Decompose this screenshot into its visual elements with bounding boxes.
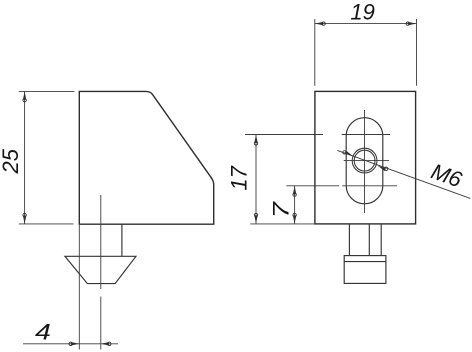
dimension 25 arrow down [23, 213, 26, 223]
dimension 4 arrow left-pointing [101, 342, 111, 345]
dimension 19 extension line right [416, 19, 418, 86]
front view T-nut rectangle [344, 256, 386, 284]
dimension 17 line [255, 135, 257, 224]
dimension 25 extension line top [19, 90, 75, 92]
dimension 25 line [24, 91, 26, 224]
M6 leader loop lower [385, 167, 388, 170]
svg-text:7: 7 [270, 200, 294, 218]
right view vertical center line [364, 110, 366, 213]
dimension 7 arrow up [293, 186, 296, 196]
dimension 17 extension line [245, 134, 323, 136]
dimension 25 arrow up [23, 92, 26, 102]
dimension 19 text [350, 0, 374, 25]
dimension 25 extension line bottom [19, 223, 74, 225]
dimension 7 line [294, 186, 296, 224]
M6 text [428, 159, 466, 193]
dimension 25 text [0, 148, 23, 174]
M6 leader arrow upper-left [345, 151, 353, 157]
dimension 19 arrow right [406, 22, 416, 25]
right view rectangle outline [315, 91, 416, 224]
lower arc center mark [342, 185, 397, 187]
svg-text:25: 25 [0, 148, 23, 174]
front view T-nut flange line [344, 261, 386, 263]
dimension 7 extension line [286, 185, 339, 187]
right view tapped hole inner circle [354, 150, 375, 171]
dimension 4 line [23, 343, 118, 345]
right view tapped hole outer circle [352, 148, 377, 173]
dimension 7 text [270, 200, 294, 218]
front view screw shank middle line [368, 224, 370, 255]
dimension 19 line [315, 23, 417, 25]
dimension 7 arrow down [293, 213, 296, 223]
upper arc center mark [342, 134, 390, 136]
front view screw shank left line [348, 224, 350, 255]
left view T-nut trapezoid [65, 256, 136, 283]
left view body outline [79, 91, 213, 224]
front view screw shank right line [380, 224, 382, 255]
right view hole horizontal center line [344, 160, 389, 162]
dimension 17 arrow down [254, 213, 257, 223]
M6 leader line [337, 150, 470, 198]
dimension 4 arrow right-pointing [69, 342, 79, 345]
svg-text:4: 4 [35, 321, 51, 345]
dimension 19 extension line left [314, 19, 316, 86]
svg-text:19: 19 [350, 0, 374, 25]
left view screw shank right edge [121, 224, 123, 256]
dimension 17 arrow up [254, 135, 257, 145]
M6 leader loop upper [343, 151, 346, 154]
dimension 17 text [227, 165, 252, 190]
left view screw axis center line [100, 195, 102, 350]
shared bottom extension line [250, 223, 315, 225]
right view slot obround [346, 118, 383, 204]
svg-text:M6: M6 [428, 159, 466, 193]
dimension 4 text [35, 321, 51, 345]
svg-text:17: 17 [227, 165, 252, 190]
left view face extension line down to dim 4 [78, 224, 80, 349]
M6 leader arrow lower-right [378, 166, 386, 172]
dimension 19 arrow left [315, 22, 325, 25]
